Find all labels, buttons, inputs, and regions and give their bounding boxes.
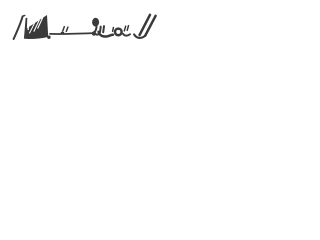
- small slanted mark a: [124, 26, 125, 31]
- small tick mid: [112, 28, 115, 32]
- calligraphy stroke: left slash: [14, 16, 23, 39]
- lam-alef slash 2: [145, 16, 155, 36]
- teeth stroke 2: [102, 26, 105, 32]
- blob tail knot: [92, 31, 96, 35]
- wedge slit 3: [29, 23, 34, 33]
- lam-alef slash 1: [140, 15, 150, 35]
- calligraphy cluster: filled wedge: [24, 15, 51, 39]
- wedge slit 2: [34, 20, 40, 32]
- tick a: [63, 27, 65, 31]
- left slash top hook: [23, 16, 25, 17]
- small slanted mark b: [127, 26, 128, 31]
- tick b: [66, 27, 68, 31]
- lam-alef base bowl: [134, 35, 145, 38]
- baseline end rising curl: [93, 27, 96, 33]
- loop ring: [115, 29, 122, 36]
- round blob: [92, 18, 99, 27]
- long baseline: [50, 32, 93, 35]
- wedge tail knot: [47, 36, 50, 39]
- tick base bump: [62, 32, 64, 34]
- knot-bowl connector: [96, 33, 99, 36]
- teeth base bowl: [99, 32, 113, 37]
- wedge slit 1: [38, 17, 43, 28]
- small base stroke: [123, 34, 130, 36]
- wedge slit 4 (left vertical separation): [28, 19, 29, 30]
- teeth stroke 1: [99, 27, 102, 33]
